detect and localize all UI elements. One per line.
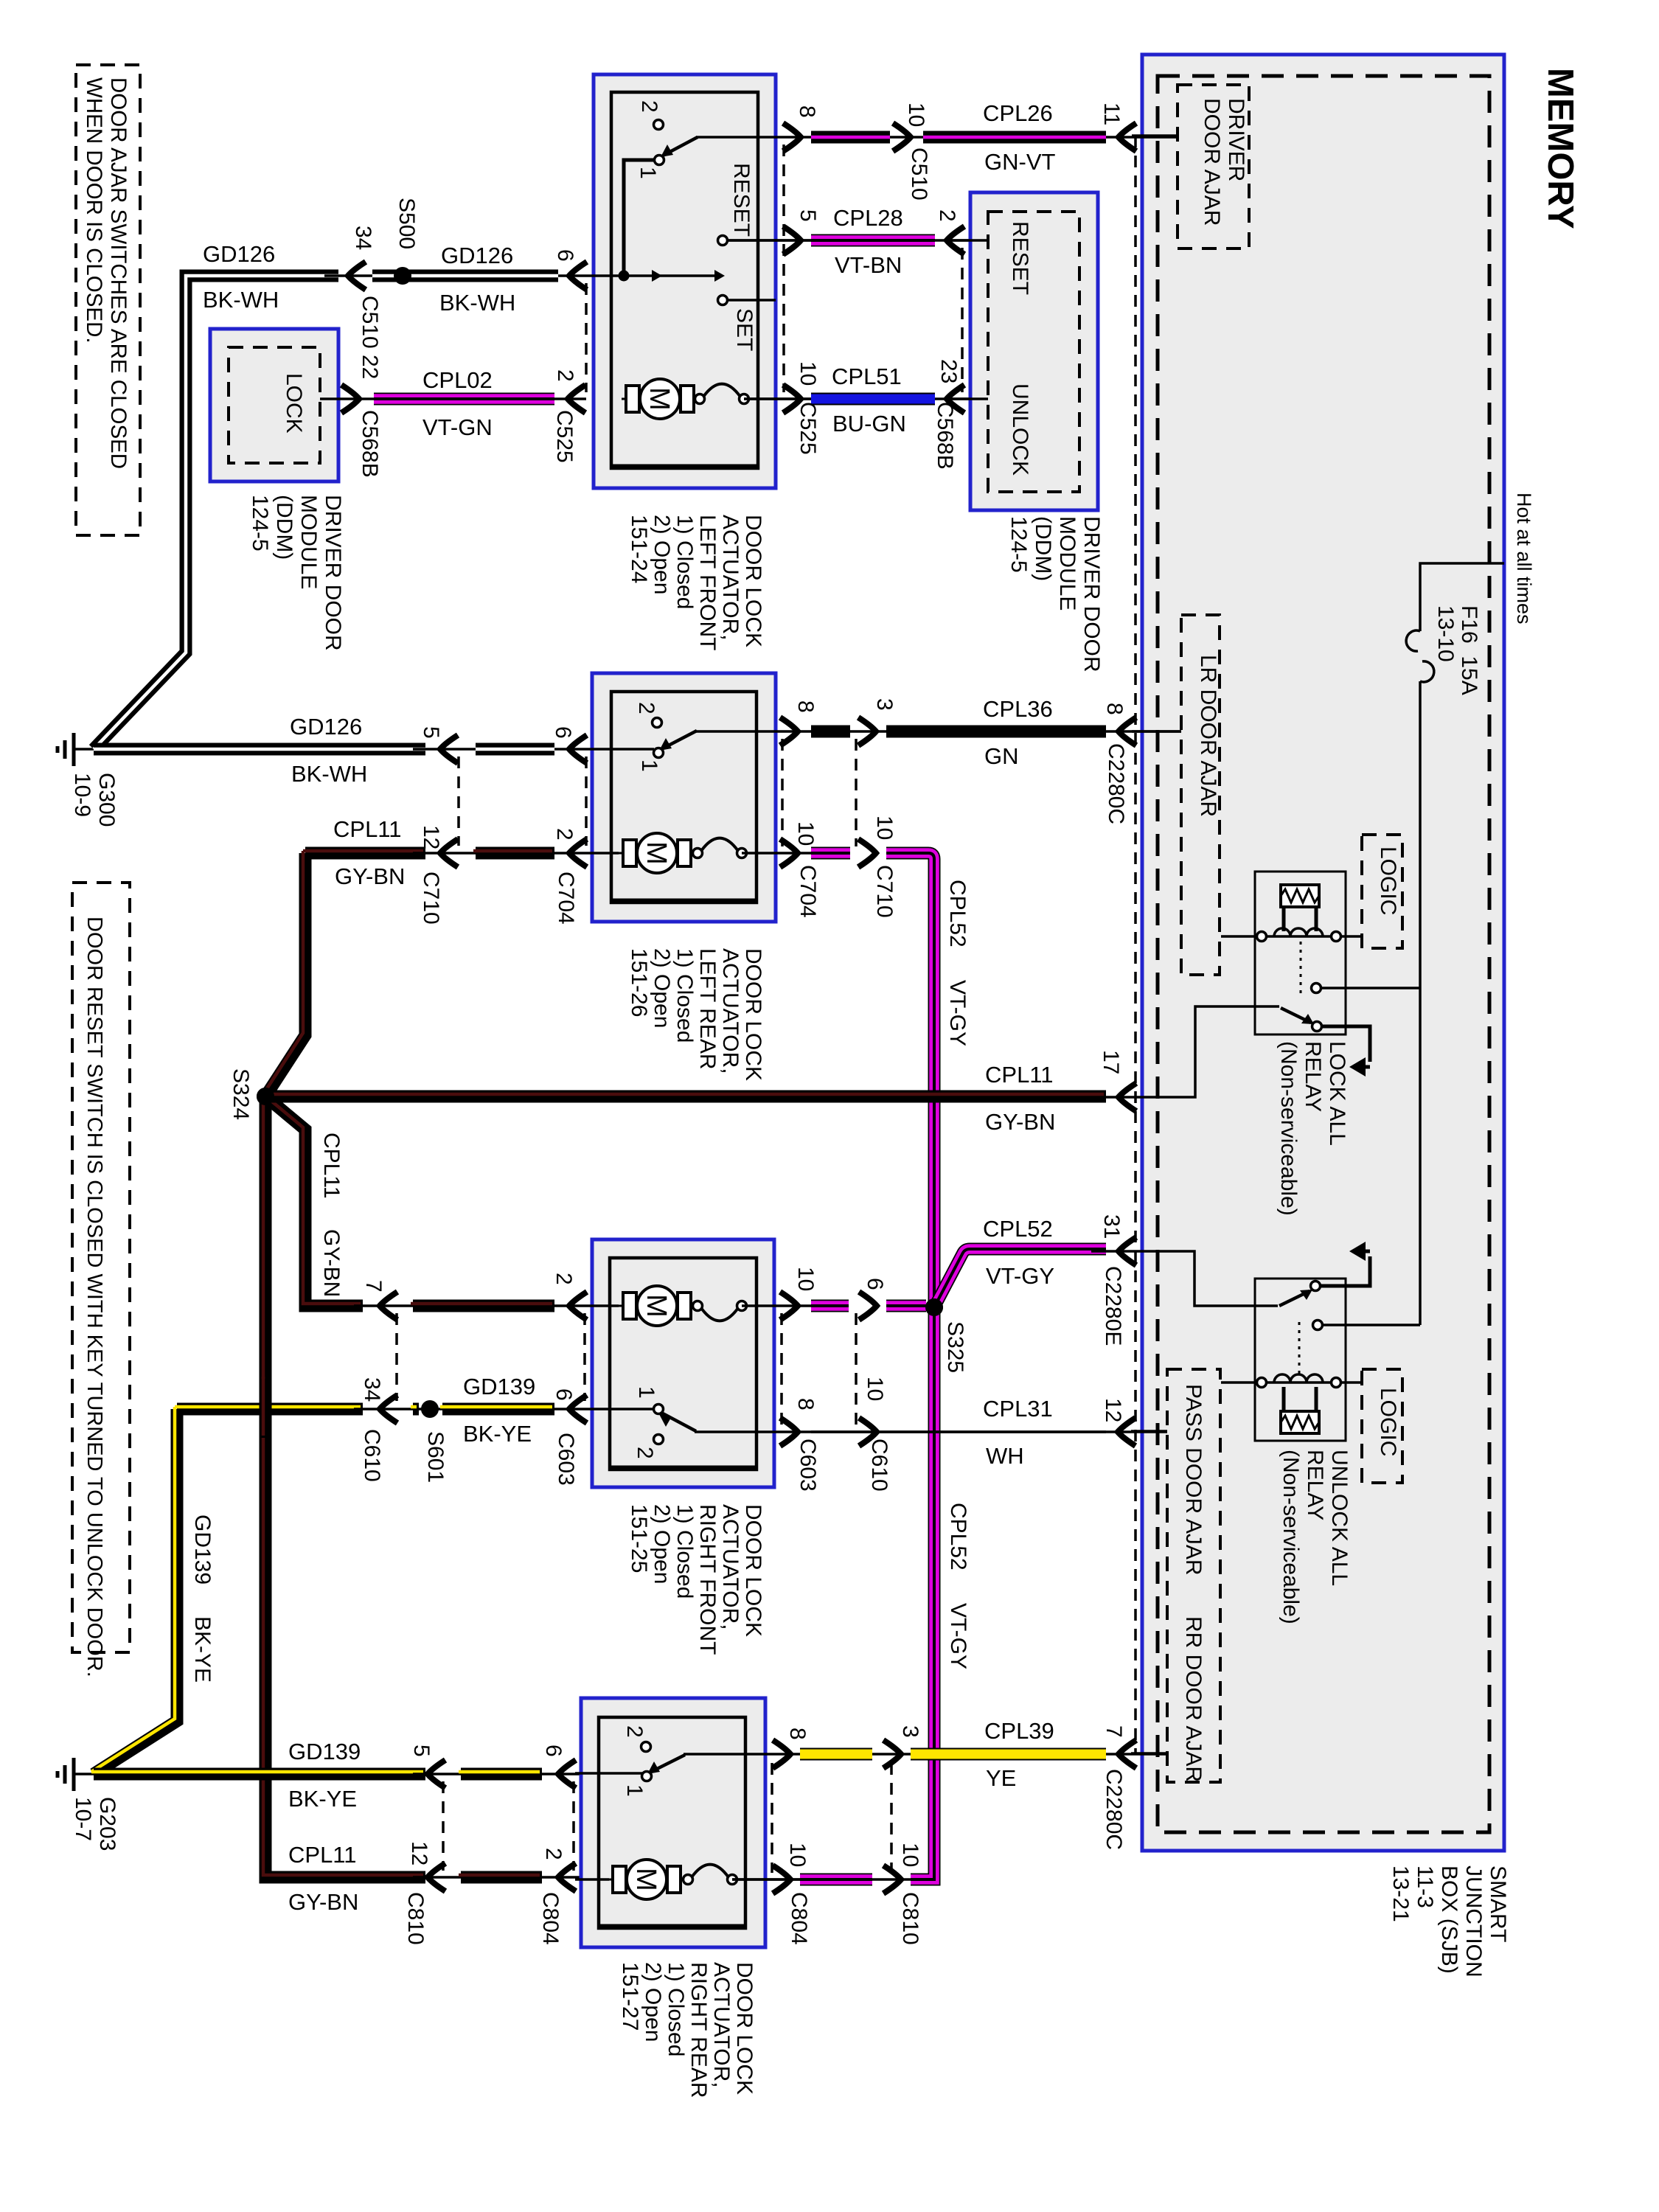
svg-text:LOGIC: LOGIC [1376,1388,1400,1456]
svg-text:11-3: 11-3 [1413,1865,1437,1908]
svg-text:2: 2 [935,209,959,222]
connector arrow 2 C525 [568,385,585,413]
svg-text:2: 2 [552,1273,576,1285]
connector arrow 6 C603 [569,1395,587,1423]
RF dashed C610 right [855,1313,858,1425]
svg-text:GN-VT: GN-VT [984,149,1056,175]
LF dashed C525 left [585,283,588,392]
fuse F16 symbol [1406,630,1420,651]
svg-text:S500: S500 [394,198,419,249]
svg-text:BK-YE: BK-YE [288,1786,357,1812]
svg-text:CPL52: CPL52 [983,1216,1053,1242]
svg-text:22: 22 [358,355,382,379]
svg-text:ACTUATOR,: ACTUATOR, [718,1504,742,1630]
UNLOCK ALL relay dotted link [1298,1322,1301,1376]
LR dashed C704 right [781,739,784,846]
overdraw: CPL11 bus over CPL52 vertical [265,1091,1106,1103]
connector arrow 22 C568B [341,385,359,413]
wire CPL11 branch down from S324 [265,1096,425,1877]
svg-text:10: 10 [898,1843,922,1867]
wire SJB pin7 internal [1131,1752,1167,1755]
svg-text:10-7: 10-7 [71,1797,95,1841]
svg-text:CPL26: CPL26 [983,100,1053,126]
UNLOCK ALL relay coil inductor [1257,1378,1267,1388]
wire CPL11 C710 row [305,847,425,860]
svg-text:RIGHT FRONT: RIGHT FRONT [695,1504,720,1655]
svg-text:RELAY: RELAY [1303,1450,1327,1520]
UNLOCK ALL relay resistor [1281,1411,1319,1433]
DDM pin23 wire [950,397,988,400]
wire CPL52 RR row [732,1878,928,1881]
svg-text:ACTUATOR,: ACTUATOR, [709,1962,734,2088]
note box: door ajar switches [76,65,140,535]
actuator RF box [592,1239,774,1487]
wire CPL11 bus to SJB pin17 [265,1091,1106,1103]
svg-text:12: 12 [419,825,443,849]
svg-text:BOX (SJB): BOX (SJB) [1437,1865,1461,1974]
svg-text:BK-WH: BK-WH [291,761,367,787]
svg-text:13-10: 13-10 [1433,605,1458,662]
connector arrow 2 C804 [558,1863,576,1891]
svg-text:LOGIC: LOGIC [1376,846,1400,915]
svg-text:DOOR LOCK: DOOR LOCK [741,948,765,1081]
wire SJB pin12 internal [1131,1430,1167,1433]
svg-text:(Non-serviceable): (Non-serviceable) [1279,1450,1303,1624]
svg-text:C2280C: C2280C [1102,1769,1126,1850]
svg-text:6: 6 [541,1745,566,1757]
wire CPL11 vertical to S324 [265,853,305,1096]
wire CPL31 row [695,1430,1167,1433]
svg-text:GY-BN: GY-BN [985,1109,1055,1135]
splice S325 dot [925,1298,943,1316]
svg-text:C568B: C568B [358,410,382,478]
wire GD139 vertical [94,1409,177,1774]
ground G300 [72,733,76,766]
svg-text:C710: C710 [419,872,443,925]
svg-text:6: 6 [551,726,575,739]
svg-text:8: 8 [793,1398,818,1411]
LR pin6 wire [586,748,654,751]
svg-text:34: 34 [360,1377,384,1402]
svg-text:11: 11 [1099,102,1124,125]
svg-text:F16 15A: F16 15A [1457,605,1481,695]
svg-text:GY-BN: GY-BN [335,863,405,889]
RR dashed C810 right [890,1763,893,1873]
svg-text:6: 6 [552,1388,576,1401]
svg-text:8: 8 [793,700,818,713]
wire CPL36 pin8 row [695,730,1181,733]
svg-text:CPL11: CPL11 [288,1842,357,1868]
svg-text:DOOR AJAR SWITCHES ARE CLOSED: DOOR AJAR SWITCHES ARE CLOSED [106,77,131,469]
LOCK ALL relay dotted link [1300,942,1302,997]
wire CPL11 branch to RF via C610 [265,1096,363,1306]
svg-text:7: 7 [1102,1725,1126,1738]
svg-text:(DDM): (DDM) [272,495,296,560]
svg-text:2: 2 [552,828,577,841]
LOCK ALL relay coil wire left [1221,935,1257,938]
svg-text:23: 23 [936,359,961,383]
actuator LR box [592,673,776,922]
svg-text:C2280C: C2280C [1104,743,1128,824]
fuse F16 wire [1420,563,1504,631]
overdraw: CPL31 over CPL52 vertical [811,1430,1106,1433]
svg-text:6: 6 [553,249,577,262]
svg-text:CPL52: CPL52 [946,1503,970,1571]
svg-text:VT-GY: VT-GY [945,980,970,1046]
svg-text:VT-BN: VT-BN [835,252,902,278]
svg-text:GD126: GD126 [290,714,362,740]
svg-text:151-27: 151-27 [618,1962,642,2031]
svg-text:RESET: RESET [1008,221,1032,295]
splice S500 [394,267,411,285]
svg-text:1) Closed: 1) Closed [664,1962,688,2056]
wire GD139 bottom thin underlay [413,1773,581,1775]
PASS/RR DOOR AJAR box [1167,1369,1220,1782]
svg-text:3: 3 [872,698,897,711]
svg-text:DOOR LOCK: DOOR LOCK [741,1504,765,1637]
svg-text:C525: C525 [796,402,820,455]
wire SJB pin11 [1132,134,1178,137]
svg-text:MEMORY: MEMORY [1540,68,1580,229]
svg-text:C804: C804 [538,1892,563,1945]
svg-text:BK-YE: BK-YE [190,1616,215,1683]
wire CPL39 row [684,1753,1167,1756]
svg-text:2) Open: 2) Open [650,515,674,594]
svg-text:C710: C710 [872,865,897,918]
LOCK ALL relay switch [1312,984,1321,993]
svg-text:M: M [641,1294,672,1318]
SJB box [1142,55,1504,1851]
RR pin6 wire [575,1772,642,1775]
LF SET contact [718,296,728,305]
overdraw: CPL11 branch over GD139 [260,1379,272,1438]
svg-text:GD126: GD126 [203,241,275,267]
svg-text:12: 12 [1101,1398,1125,1422]
svg-text:2: 2 [622,1725,647,1738]
svg-text:VT-GY: VT-GY [986,1263,1054,1289]
svg-text:S325: S325 [943,1321,967,1373]
svg-text:3: 3 [898,1725,922,1738]
svg-text:DRIVER DOOR: DRIVER DOOR [1079,516,1104,672]
connector arrow 5 (C710) [440,735,458,763]
wire SJB pin8 internal [1132,730,1181,733]
splice S601 [421,1400,439,1418]
relay LOCK ALL box [1255,872,1346,1034]
splice S324 dot [257,1088,274,1105]
svg-text:DOOR LOCK: DOOR LOCK [741,515,765,647]
svg-text:ACTUATOR,: ACTUATOR, [718,948,742,1074]
wire CPL52 RF row [811,1300,849,1312]
wire CPL28 pin5 row [727,239,988,242]
svg-text:2: 2 [541,1848,566,1860]
overdraw: CPL39 over CPL52 vertical [911,1748,1106,1761]
svg-text:2) Open: 2) Open [641,1962,665,2042]
svg-text:10: 10 [863,1377,887,1401]
wire CPL52 to pin31 [934,1249,1106,1307]
svg-text:DRIVER DOOR: DRIVER DOOR [321,495,345,651]
svg-text:31: 31 [1099,1214,1124,1239]
RF dashed C603 right [780,1313,783,1425]
svg-text:LOCK: LOCK [282,373,306,434]
C2280 connector dashed line [1134,136,1137,1753]
DDM RESET/UNLOCK box [970,192,1098,510]
wire GD126 band S500 segment [372,270,558,282]
svg-text:DOOR AJAR: DOOR AJAR [1200,98,1224,226]
connector dashed C810 left [442,1781,445,1871]
svg-text:CPL31: CPL31 [983,1396,1053,1422]
svg-text:7: 7 [361,1280,386,1293]
svg-text:RR DOOR AJAR: RR DOOR AJAR [1181,1616,1206,1782]
LR dashed C710 right [855,739,858,846]
svg-text:C810: C810 [403,1892,428,1945]
LOCK ALL relay coil inductor [1257,932,1267,942]
connector arrow 12 C710 [440,839,458,867]
svg-text:G203: G203 [95,1797,119,1851]
svg-text:124-5: 124-5 [1006,516,1031,573]
wire CPL26 pin8 row [696,136,1178,139]
svg-text:RIGHT REAR: RIGHT REAR [686,1962,711,2098]
svg-text:LR DOOR AJAR: LR DOOR AJAR [1196,655,1220,817]
connector arrow 7 C610 [380,1292,397,1320]
svg-text:CPL28: CPL28 [833,205,903,231]
svg-text:(DDM): (DDM) [1031,516,1055,581]
wire GD126 mid thin underlay [413,748,586,751]
svg-text:S324: S324 [229,1068,253,1120]
svg-text:5: 5 [419,726,443,739]
LF dashed C525 right [782,145,785,392]
svg-text:C510: C510 [907,147,931,201]
splice S325 [925,1298,943,1316]
svg-text:C2280E: C2280E [1101,1266,1125,1346]
svg-text:C568B: C568B [933,402,957,470]
LOCK ALL relay resistor [1281,885,1319,907]
svg-text:C810: C810 [898,1892,922,1945]
svg-text:CPL11: CPL11 [985,1062,1054,1088]
svg-text:BK-WH: BK-WH [203,287,279,313]
svg-text:12: 12 [407,1841,431,1865]
svg-text:GY-BN: GY-BN [288,1889,358,1915]
wire CPL52 below S325 [912,1307,934,1879]
svg-text:1) Closed: 1) Closed [672,948,697,1043]
svg-text:1) Closed: 1) Closed [672,515,697,609]
svg-text:1: 1 [637,759,661,772]
svg-text:SET: SET [732,308,757,351]
note box: door reset switch [72,883,130,1652]
svg-text:151-26: 151-26 [627,948,651,1017]
svg-text:5: 5 [796,209,820,222]
svg-text:PASS DOOR AJAR: PASS DOOR AJAR [1181,1384,1206,1576]
wire GD126 BK-WH main run [94,276,338,749]
wire SJB pin31 to unlock relay [1132,1251,1278,1306]
svg-text:151-25: 151-25 [627,1504,651,1573]
svg-text:BK-WH: BK-WH [439,290,515,316]
LF pin1 L wire [624,160,655,271]
connector dashed C603 left [583,1313,586,1401]
svg-text:17: 17 [1099,1050,1123,1074]
svg-text:RELAY: RELAY [1301,1041,1325,1112]
svg-text:LEFT FRONT: LEFT FRONT [695,515,720,650]
svg-text:10: 10 [796,361,820,386]
svg-text:6: 6 [863,1278,887,1290]
connector arrow 6 (C804) [558,1760,576,1788]
svg-text:MODULE: MODULE [1055,516,1079,611]
LF RESET contact [718,236,728,246]
svg-text:GY-BN: GY-BN [319,1229,344,1297]
svg-text:C603: C603 [796,1439,820,1492]
svg-text:10-9: 10-9 [70,773,94,817]
svg-text:C704: C704 [796,865,820,918]
UNLOCK ALL relay output arrow [1320,1256,1370,1286]
svg-text:C610: C610 [360,1429,384,1482]
DRIVER DOOR AJAR box [1178,85,1249,248]
svg-text:CPL11: CPL11 [319,1133,344,1199]
svg-text:S601: S601 [423,1431,448,1483]
ground G203 [72,1758,76,1791]
LF pin6 junction [619,271,630,282]
svg-text:CPL02: CPL02 [422,367,493,393]
svg-text:1: 1 [622,1784,647,1797]
SJB inner dashed outline [1158,76,1489,1832]
connector arrow 6 (C704) [569,735,587,763]
svg-text:M: M [644,387,675,411]
UNLOCK ALL relay switch [1313,1321,1323,1330]
connector arrow 6 C525 [569,262,587,290]
svg-text:2: 2 [637,100,661,113]
connector arrow 2 C603 [569,1292,587,1320]
svg-text:BU-GN: BU-GN [832,411,906,437]
svg-text:1: 1 [636,167,660,179]
actuator LF box [594,74,776,488]
svg-text:C610: C610 [867,1439,891,1492]
LR motor [619,852,695,855]
actuator RR box [581,1698,765,1947]
svg-text:GD139: GD139 [288,1739,361,1764]
svg-text:CPL51: CPL51 [832,364,902,389]
wire CPL52 pin10 row [811,847,850,860]
svg-text:YE: YE [986,1765,1016,1791]
connector arrow 34 C610 [380,1395,397,1423]
svg-text:C525: C525 [552,410,577,463]
svg-text:GD126: GD126 [441,243,513,268]
svg-text:G300: G300 [94,773,119,827]
wire GD126 top thin underlay [324,274,586,277]
dashed C568B right [961,248,964,392]
svg-text:2) Open: 2) Open [650,948,674,1028]
svg-text:C603: C603 [554,1433,578,1486]
svg-text:RESET: RESET [729,163,754,237]
svg-text:LEFT REAR: LEFT REAR [695,948,720,1070]
svg-text:M: M [641,841,672,865]
svg-text:1: 1 [634,1386,658,1399]
LF pin6 wire [586,274,719,277]
connector arrow 34 C510 [348,262,366,290]
LOCK ALL relay coil wire right [1340,935,1362,938]
svg-text:DOOR RESET SWITCH IS CLOSED WI: DOOR RESET SWITCH IS CLOSED WITH KEY TUR… [83,917,106,1677]
connector dashed C804 left [572,1781,575,1871]
svg-text:2) Open: 2) Open [650,1504,674,1584]
UNLOCK ALL relay coil wire left [1221,1381,1257,1384]
svg-text:C510: C510 [358,296,382,349]
svg-text:SMART: SMART [1486,1865,1510,1942]
svg-text:8: 8 [795,105,819,118]
connector dashed C704 left [585,757,588,846]
svg-text:DRIVER: DRIVER [1224,98,1248,181]
svg-text:VT-GN: VT-GN [422,414,493,440]
svg-text:10: 10 [785,1843,810,1867]
wire GD126 mid band to LR [476,743,554,756]
RR motor [608,1879,685,1881]
svg-text:UNLOCK ALL: UNLOCK ALL [1327,1450,1352,1586]
svg-text:124-5: 124-5 [248,495,272,552]
svg-text:UNLOCK: UNLOCK [1008,383,1032,476]
svg-text:8: 8 [1102,703,1127,715]
wire CPL52 vertical [928,859,941,1307]
svg-text:GD139: GD139 [190,1514,215,1585]
svg-text:5: 5 [409,1745,434,1757]
wire CPL51 pin10 row [744,397,988,400]
wire SJB pin17 to lock relay [1132,1006,1279,1097]
connector arrow 2 C704 [569,839,587,867]
svg-text:10: 10 [793,1267,818,1291]
svg-text:JUNCTION: JUNCTION [1461,1865,1486,1978]
RF motor [619,1305,695,1307]
connector dashed C610 left [395,1313,398,1401]
svg-text:MODULE: MODULE [296,495,321,589]
svg-text:LOCK ALL: LOCK ALL [1325,1041,1349,1146]
svg-text:C804: C804 [787,1892,811,1945]
svg-text:10: 10 [872,815,897,840]
svg-text:10: 10 [793,821,818,846]
LOGIC box (unlock) [1362,1369,1402,1483]
svg-text:(Non-serviceable): (Non-serviceable) [1276,1041,1301,1216]
LR DOOR AJAR box [1181,615,1220,975]
wire CPL02 [320,397,586,400]
svg-text:34: 34 [351,226,375,250]
svg-text:BK-YE: BK-YE [463,1421,532,1447]
relay UNLOCK ALL box [1255,1279,1346,1441]
svg-text:CPL52: CPL52 [945,880,970,947]
splice S324 [257,1088,274,1105]
RR dashed C804 right [771,1763,773,1873]
svg-text:GD139: GD139 [463,1374,535,1399]
svg-text:M: M [630,1868,661,1891]
svg-text:1) Closed: 1) Closed [672,1504,697,1599]
svg-text:ACTUATOR,: ACTUATOR, [718,515,742,641]
svg-text:CPL36: CPL36 [983,696,1053,722]
LOCK ALL relay output arrow [1321,1026,1370,1062]
connector dashed C710 left [457,757,460,846]
svg-text:2: 2 [634,702,658,714]
svg-text:GN: GN [984,743,1019,769]
svg-text:2: 2 [633,1447,657,1459]
svg-text:151-24: 151-24 [627,515,651,583]
connector arrow 12 C810 [428,1863,445,1891]
wire CPL11 bottom thin underlay [413,1876,581,1879]
svg-text:C704: C704 [554,872,578,925]
UNLOCK ALL relay coil wire right [1340,1381,1362,1384]
svg-text:8: 8 [785,1728,810,1740]
svg-text:CPL11: CPL11 [333,816,402,842]
svg-text:13-21: 13-21 [1388,1865,1413,1922]
svg-text:Hot at all times: Hot at all times [1513,493,1535,625]
LF motor [622,398,698,400]
svg-text:CPL39: CPL39 [984,1718,1054,1744]
LOGIC box (lock) [1362,835,1402,948]
svg-text:WHEN DOOR IS CLOSED.: WHEN DOOR IS CLOSED. [82,77,106,344]
svg-text:DOOR LOCK: DOOR LOCK [732,1962,757,2095]
wire GD139 S601 row [177,1403,363,1416]
svg-text:2: 2 [553,369,577,382]
